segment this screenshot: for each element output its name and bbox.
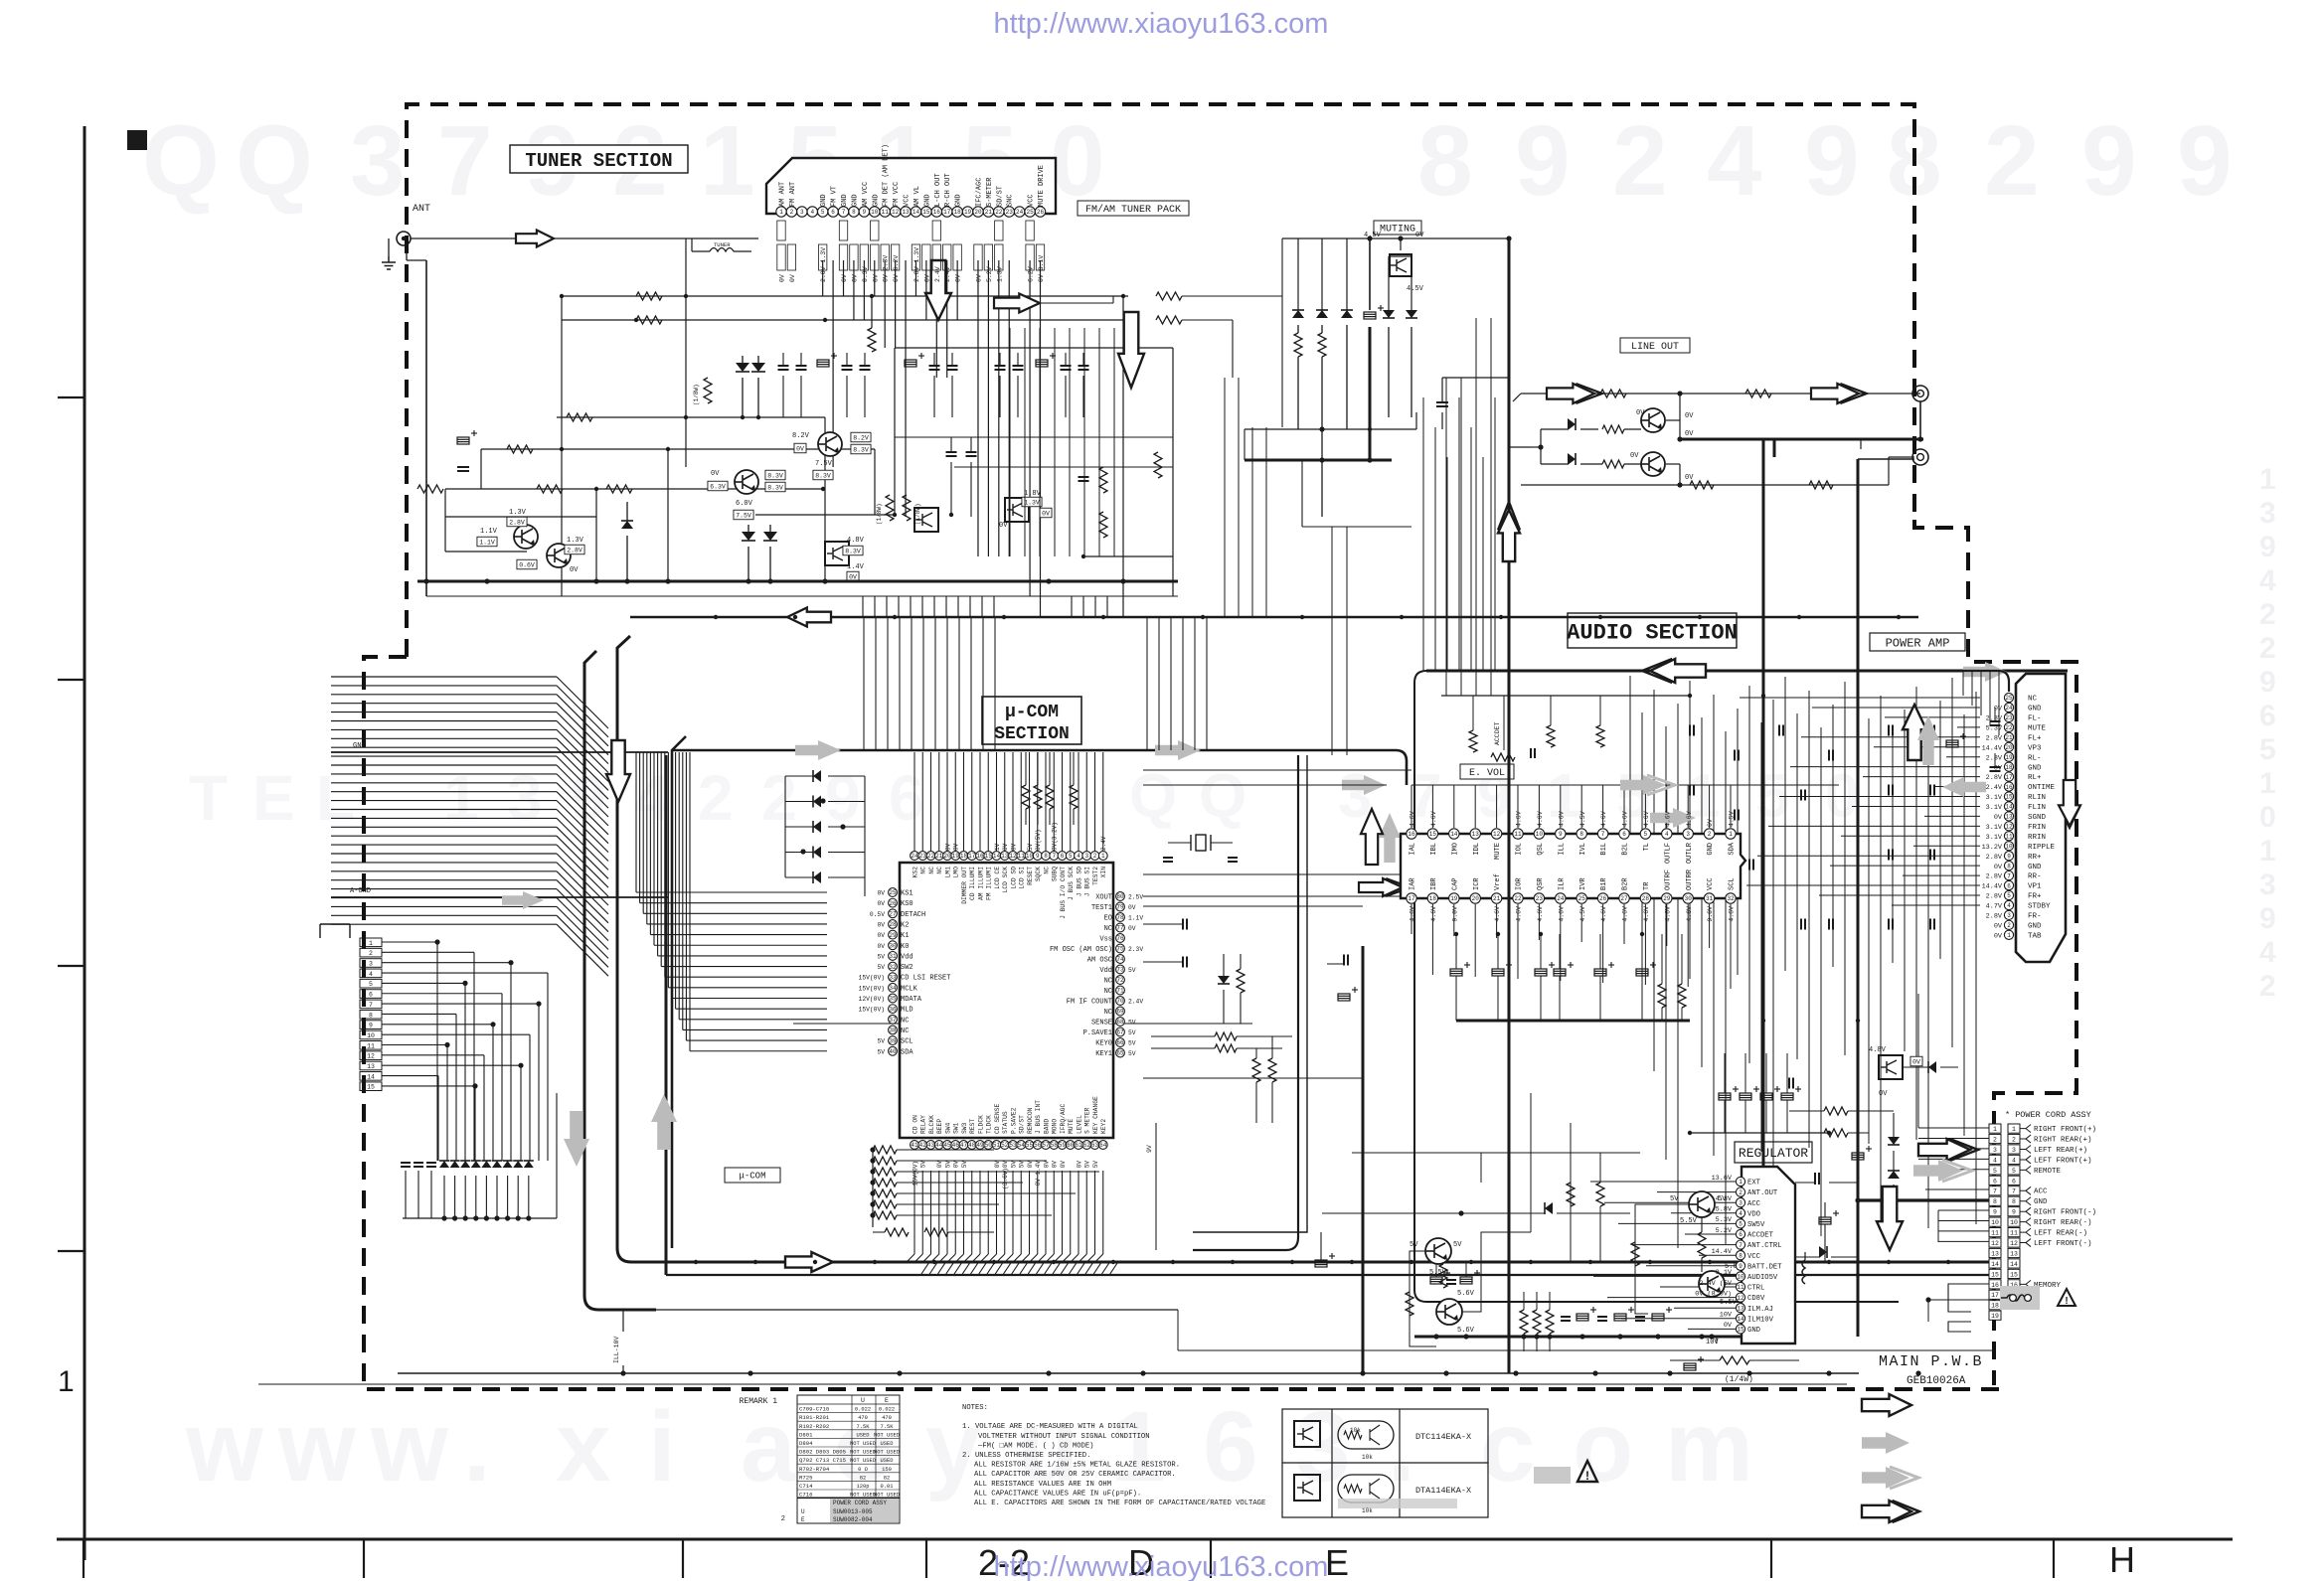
svg-text:2: 2 xyxy=(1984,105,2040,217)
svg-text:5V: 5V xyxy=(961,1161,968,1169)
svg-text:12: 12 xyxy=(1009,853,1017,860)
svg-text:XOUT: XOUT xyxy=(1095,894,1112,902)
wire muting top rail xyxy=(1282,236,1509,310)
svg-text:14: 14 xyxy=(367,1073,375,1080)
svg-text:18: 18 xyxy=(1429,895,1437,902)
transistor Q102 xyxy=(547,544,571,567)
wire u-COM bottom pin drops xyxy=(907,1171,1103,1262)
svg-text:2.8V: 2.8V xyxy=(1986,913,2003,921)
svg-text:46: 46 xyxy=(952,1142,960,1149)
capacitor trio lower audio xyxy=(1690,1053,1829,1133)
gray arrow audio 2 xyxy=(1620,775,1675,795)
svg-text:0.022: 0.022 xyxy=(855,1407,871,1413)
svg-text:1.1V: 1.1V xyxy=(480,528,498,536)
svg-text:0V: 0V xyxy=(1994,864,2003,871)
wire bus left vertical continuation to u-COM xyxy=(636,752,827,1051)
svg-text:BATT.DET: BATT.DET xyxy=(1747,1263,1782,1271)
svg-text:EO: EO xyxy=(1104,915,1112,923)
wire right tuner to muting xyxy=(1239,238,1282,460)
svg-text:27: 27 xyxy=(1620,895,1628,902)
resistor R799 quarter watt xyxy=(1670,1356,1799,1384)
wire thick GND to power cord pin8 xyxy=(1855,1197,1989,1202)
svg-text:FM VCC: FM VCC xyxy=(893,182,901,207)
svg-text:4: 4 xyxy=(2012,1157,2016,1164)
svg-text:U: U xyxy=(801,1508,805,1515)
svg-text:470: 470 xyxy=(858,1415,868,1421)
capacitor C102 xyxy=(457,466,469,468)
svg-text:NC: NC xyxy=(2028,696,2038,704)
svg-text:RR-: RR- xyxy=(2028,873,2042,881)
svg-text:6: 6 xyxy=(2007,882,2011,889)
svg-text:64: 64 xyxy=(1099,1142,1107,1149)
svg-text:FR-: FR- xyxy=(2028,913,2042,921)
gray highlight swatch xyxy=(1534,1467,1571,1484)
svg-text:20: 20 xyxy=(974,209,982,216)
svg-text:Vref: Vref xyxy=(1494,873,1502,890)
resistor R110 vertical pair with labels xyxy=(876,495,921,525)
svg-text:4.6V: 4.6V xyxy=(1537,811,1544,827)
svg-text:5: 5 xyxy=(1739,1221,1743,1228)
svg-text:DIMMER OUT: DIMMER OUT xyxy=(961,867,968,904)
svg-text:LM1: LM1 xyxy=(944,867,951,878)
svg-text:AUDIO SECTION: AUDIO SECTION xyxy=(1567,620,1738,645)
svg-text:10k: 10k xyxy=(1362,1507,1373,1514)
connector power cord assy xyxy=(1989,1110,2096,1320)
svg-text:CD LSI RESET: CD LSI RESET xyxy=(901,975,950,983)
svg-text:2: 2 xyxy=(2007,922,2011,929)
svg-text:75: 75 xyxy=(1116,946,1124,953)
svg-text:2: 2 xyxy=(790,209,794,216)
svg-text:0V: 0V xyxy=(1010,843,1017,851)
svg-text:L: L xyxy=(316,762,355,834)
svg-text:SW2: SW2 xyxy=(901,964,913,972)
svg-text:5.2V: 5.2V xyxy=(1716,1227,1733,1235)
svg-text:44: 44 xyxy=(935,1142,943,1149)
svg-text:SD/ST: SD/ST xyxy=(996,186,1004,207)
arrow down from tuner pins xyxy=(925,260,951,320)
svg-text:CTRL: CTRL xyxy=(1747,1285,1764,1293)
svg-text:(1/8W): (1/8W) xyxy=(876,503,883,525)
svg-text:MUTE: MUTE xyxy=(1068,1119,1075,1134)
svg-text:17: 17 xyxy=(1408,895,1415,902)
svg-text:0V: 0V xyxy=(1630,452,1639,460)
resistor R105 xyxy=(417,485,443,493)
transistor Q104 xyxy=(818,432,842,456)
svg-text:1. VOLTAGE ARE DC-MEASURED WI: 1. VOLTAGE ARE DC-MEASURED WITH A DIGITA… xyxy=(962,1423,1138,1431)
svg-text:GND: GND xyxy=(872,194,880,207)
svg-text:0V: 0V xyxy=(877,943,885,950)
svg-text:2.8V: 2.8V xyxy=(1986,893,2003,901)
wire audio horizontals to power amp pins xyxy=(1740,698,1980,905)
svg-text:REMOCON: REMOCON xyxy=(1027,1107,1034,1134)
svg-text:H: H xyxy=(2109,1539,2135,1580)
svg-text:12: 12 xyxy=(1493,831,1501,838)
svg-text:3.1V: 3.1V xyxy=(1986,834,2003,842)
svg-text:9: 9 xyxy=(1993,1209,1997,1216)
svg-text:9: 9 xyxy=(2177,105,2233,217)
label FM/AM TUNER PACK xyxy=(1078,201,1189,216)
wire long vertical 1371 xyxy=(1362,946,1365,1373)
svg-text:4.6V: 4.6V xyxy=(1600,811,1607,827)
svg-text:NC: NC xyxy=(1104,925,1112,933)
wire line out thick feed vertical xyxy=(1506,236,1511,1373)
svg-text:21: 21 xyxy=(935,853,943,860)
svg-text:ILM10V: ILM10V xyxy=(1747,1316,1774,1324)
svg-text:2.8V: 2.8V xyxy=(509,519,525,526)
voltage labels Q101 xyxy=(477,509,527,547)
svg-text:5V: 5V xyxy=(877,1038,885,1045)
svg-text:EXT: EXT xyxy=(1747,1180,1761,1187)
svg-text:RIGHT REAR(-): RIGHT REAR(-) xyxy=(2034,1219,2092,1227)
svg-text:4.5V: 4.5V xyxy=(1729,811,1736,827)
svg-text:AM ILLUMI: AM ILLUMI xyxy=(977,867,984,900)
svg-text:14: 14 xyxy=(1991,1261,1999,1268)
svg-text:4.3V: 4.3V xyxy=(1716,1195,1733,1203)
svg-text:(1/8W): (1/8W) xyxy=(914,503,921,525)
wire antenna feed xyxy=(389,238,758,596)
svg-text:33: 33 xyxy=(889,974,897,981)
diode D703 pair at power cord xyxy=(1888,1113,1900,1200)
svg-text:2: 2 xyxy=(1993,1136,1997,1143)
svg-text:9: 9 xyxy=(2259,531,2276,563)
svg-text:0V: 0V xyxy=(841,274,848,282)
svg-text:SENSE: SENSE xyxy=(1091,1020,1112,1028)
svg-text:56: 56 xyxy=(1034,1142,1042,1149)
gray arrow audio 3 xyxy=(1650,808,1696,828)
svg-text:6: 6 xyxy=(1061,853,1065,860)
svg-text:QSL: QSL xyxy=(1537,843,1545,856)
svg-text:470: 470 xyxy=(882,1415,892,1421)
svg-text:KEY CHANGE: KEY CHANGE xyxy=(1092,1096,1099,1134)
svg-text:16: 16 xyxy=(2005,784,2013,791)
svg-text:AM OSC: AM OSC xyxy=(1087,957,1112,965)
gray arrow audio 1 xyxy=(1342,775,1386,795)
svg-text:10: 10 xyxy=(1536,831,1544,838)
svg-text:LEFT REAR(-): LEFT REAR(-) xyxy=(2034,1230,2087,1238)
resistor vertical pair below KEY xyxy=(1252,1036,1276,1123)
wire diode array bus xyxy=(403,1093,557,1221)
svg-text:6: 6 xyxy=(369,992,373,999)
svg-text:IOR: IOR xyxy=(1516,877,1524,890)
svg-text:0V 6.2V: 0V 6.2V xyxy=(893,255,900,282)
svg-text:0V: 0V xyxy=(1685,474,1694,482)
svg-text:4: 4 xyxy=(2259,564,2276,597)
svg-text:ANT: ANT xyxy=(413,204,430,215)
svg-text:4: 4 xyxy=(1665,831,1669,838)
svg-text:RLIN: RLIN xyxy=(2028,794,2046,802)
svg-text:2: 2 xyxy=(2259,970,2276,1003)
svg-text:FL+: FL+ xyxy=(2028,734,2042,742)
svg-text:U: U xyxy=(861,1397,865,1404)
svg-text:1: 1 xyxy=(1101,853,1105,860)
resistor R107 xyxy=(606,485,632,493)
svg-text:0V: 0V xyxy=(1724,1322,1733,1330)
svg-text:15V(0V): 15V(0V) xyxy=(912,1161,918,1186)
svg-text:65: 65 xyxy=(1116,1050,1124,1057)
arrow on antenna feed xyxy=(516,231,554,247)
svg-text:9: 9 xyxy=(2259,902,2276,935)
svg-text:5V: 5V xyxy=(877,964,885,971)
electrolytic C110 group xyxy=(817,353,1056,367)
svg-text:9: 9 xyxy=(825,762,861,834)
junction dots on buses xyxy=(694,615,1950,1264)
svg-text:1.3V: 1.3V xyxy=(509,509,527,517)
svg-text:0V: 0V xyxy=(1027,1161,1034,1169)
resistor R201 after arrow xyxy=(1040,292,1272,378)
svg-text:25: 25 xyxy=(889,889,897,896)
svg-text:Vdd: Vdd xyxy=(1099,967,1112,975)
svg-text:QSR: QSR xyxy=(1537,877,1545,890)
svg-text:0V: 0V xyxy=(1879,1090,1888,1098)
arrow left on audio boundary xyxy=(1642,659,1706,683)
svg-text:5: 5 xyxy=(821,209,825,216)
svg-text:1.3V: 1.3V xyxy=(1024,499,1040,506)
svg-text:5V: 5V xyxy=(920,1161,927,1169)
svg-text:28: 28 xyxy=(889,921,897,928)
svg-text:17: 17 xyxy=(1991,1292,1999,1299)
svg-text:K1: K1 xyxy=(901,932,909,940)
svg-text:4.6V: 4.6V xyxy=(1622,906,1629,922)
svg-text:12V(0V): 12V(0V) xyxy=(859,996,885,1003)
wire Q706 bias box xyxy=(1406,1232,1531,1346)
svg-text:29: 29 xyxy=(1663,895,1671,902)
svg-text:25: 25 xyxy=(2005,695,2013,702)
svg-text:5V: 5V xyxy=(1128,1040,1136,1047)
svg-text:.: . xyxy=(1388,1391,1415,1502)
svg-text:12: 12 xyxy=(2010,1240,2018,1247)
svg-text:2.5V: 2.5V xyxy=(1128,894,1143,901)
svg-text:KEY2: KEY2 xyxy=(1100,1119,1107,1134)
svg-text:14: 14 xyxy=(2005,804,2013,811)
voltage labels Q107 xyxy=(999,490,1052,530)
svg-text:10: 10 xyxy=(367,1032,375,1039)
resistor R303 xyxy=(1602,425,1624,433)
svg-text:MAIN P.W.B: MAIN P.W.B xyxy=(1879,1353,1983,1370)
svg-text:6: 6 xyxy=(831,209,835,216)
svg-text:0V: 0V xyxy=(975,274,982,282)
svg-text:8: 8 xyxy=(1993,1198,1997,1205)
svg-text:GND: GND xyxy=(2028,706,2042,713)
wire memory pins 16-18 loop xyxy=(1925,1284,1989,1332)
svg-text:3: 3 xyxy=(1739,1199,1743,1206)
svg-text:23: 23 xyxy=(2005,714,2013,721)
svg-text:1.3V: 1.3V xyxy=(996,266,1003,282)
svg-text:9: 9 xyxy=(1739,1263,1743,1270)
svg-text:ILR: ILR xyxy=(1558,877,1566,890)
gray arrow on u-COM top 2 xyxy=(1155,740,1201,760)
svg-text:10: 10 xyxy=(2005,843,2013,850)
svg-text:TEST1: TEST1 xyxy=(1091,904,1112,912)
wire 10V label xyxy=(1706,1337,1719,1346)
svg-text:REMOTE: REMOTE xyxy=(2034,1168,2062,1176)
wire bus B to audio thick horizontal xyxy=(631,1261,1989,1264)
svg-text:5: 5 xyxy=(2012,1168,2016,1175)
svg-text:R725: R725 xyxy=(799,1474,812,1481)
svg-text:22: 22 xyxy=(927,853,935,860)
svg-text:11: 11 xyxy=(1018,853,1026,860)
svg-text:30: 30 xyxy=(1685,895,1693,902)
resistor between Q704 Q705 xyxy=(1698,1217,1706,1272)
label MUTING xyxy=(1374,221,1421,235)
svg-text:25: 25 xyxy=(1578,895,1586,902)
svg-text:ALL E. CAPACITORS ARE SHOWN IN: ALL E. CAPACITORS ARE SHOWN IN THE FORM … xyxy=(974,1500,1265,1507)
svg-text:19: 19 xyxy=(1991,1313,1999,1320)
svg-text:5V: 5V xyxy=(877,1048,885,1055)
capacitor bank tuner mid xyxy=(778,353,1089,417)
svg-text:NC: NC xyxy=(1104,978,1112,986)
svg-text:CD ON: CD ON xyxy=(912,1115,918,1134)
svg-text:0V: 0V xyxy=(1707,819,1714,827)
svg-text:66: 66 xyxy=(1116,1039,1124,1046)
svg-text:1.8V: 1.8V xyxy=(1024,490,1042,498)
svg-text:(1/4W): (1/4W) xyxy=(1725,1375,1753,1384)
svg-text:Q: Q xyxy=(236,105,313,217)
svg-text:1: 1 xyxy=(2007,932,2011,939)
svg-text:RESET: RESET xyxy=(1027,867,1034,885)
svg-text:15V(0V): 15V(0V) xyxy=(859,1007,885,1014)
diode D301 xyxy=(1541,418,1598,430)
svg-text:2.4V: 2.4V xyxy=(944,266,951,282)
capacitor C701 at regulator top xyxy=(1795,1173,1858,1185)
resistor R101 xyxy=(636,292,662,300)
coil L701 xyxy=(1802,1252,1805,1284)
svg-text:7: 7 xyxy=(369,1002,373,1009)
svg-text:0V: 0V xyxy=(1076,1161,1082,1169)
svg-text:1.1V: 1.1V xyxy=(479,539,495,546)
svg-text:2: 2 xyxy=(2259,598,2276,631)
svg-text:GND: GND xyxy=(820,194,828,207)
svg-text:NC: NC xyxy=(901,1028,909,1035)
svg-text:18: 18 xyxy=(960,853,968,860)
svg-text:19: 19 xyxy=(1450,895,1458,902)
svg-text:11: 11 xyxy=(2010,1230,2018,1237)
diode D705 on long wire xyxy=(1322,1202,1630,1216)
resistor muting pair xyxy=(1294,325,1411,517)
wire bus tuner-out verticals going down xyxy=(426,596,1178,617)
svg-text:7: 7 xyxy=(1739,1242,1743,1249)
svg-text:11: 11 xyxy=(367,1042,375,1049)
svg-text:LCD SCK: LCD SCK xyxy=(1002,867,1009,893)
svg-text:LEFT REAR(+): LEFT REAR(+) xyxy=(2034,1147,2087,1155)
svg-text:a: a xyxy=(741,1391,797,1502)
svg-text:9: 9 xyxy=(1036,853,1040,860)
wire muting lower rails xyxy=(1245,412,1416,527)
svg-text:TAB: TAB xyxy=(2028,932,2042,940)
svg-text:J BUS INT: J BUS INT xyxy=(1035,1100,1042,1134)
svg-text:1: 1 xyxy=(700,105,755,217)
svg-text:2.4V: 2.4V xyxy=(934,266,941,282)
svg-text:FLIN: FLIN xyxy=(2028,804,2046,812)
svg-text:4: 4 xyxy=(810,209,814,216)
svg-text:21: 21 xyxy=(2005,734,2013,741)
svg-text:20: 20 xyxy=(943,853,951,860)
svg-text:4.6V: 4.6V xyxy=(1664,811,1671,827)
svg-text:IVR: IVR xyxy=(1579,877,1587,890)
svg-text:3: 3 xyxy=(350,105,406,217)
svg-text:0.022: 0.022 xyxy=(879,1407,895,1413)
svg-text:15V(0V): 15V(0V) xyxy=(859,985,885,992)
svg-text:4.6V: 4.6V xyxy=(1643,906,1650,922)
svg-text:1: 1 xyxy=(1729,831,1733,838)
node A-GND bus label xyxy=(331,887,668,897)
arrow up line feed xyxy=(1498,502,1520,561)
label TUNER SECTION xyxy=(510,145,688,173)
svg-text:0V: 0V xyxy=(877,921,885,928)
svg-text:9: 9 xyxy=(2012,1209,2016,1216)
svg-text:ANT.CTRL: ANT.CTRL xyxy=(1747,1242,1782,1250)
svg-text:3: 3 xyxy=(800,209,804,216)
arrow left on bus D xyxy=(787,608,831,627)
svg-text:77: 77 xyxy=(1116,925,1124,932)
wire bundle tuner extra verticals xyxy=(895,328,1173,556)
svg-text:16: 16 xyxy=(1991,1282,1999,1289)
svg-text:15: 15 xyxy=(2005,794,2013,801)
svg-text:Q: Q xyxy=(1199,762,1246,831)
svg-text:0V: 0V xyxy=(877,900,885,907)
svg-text:KEY1: KEY1 xyxy=(1095,1050,1112,1058)
svg-text:14.4V: 14.4V xyxy=(1982,883,2003,891)
svg-text:4: 4 xyxy=(2007,902,2011,909)
svg-text:31: 31 xyxy=(889,953,897,960)
svg-text:4.8V: 4.8V xyxy=(1869,1046,1887,1054)
connector power amp xyxy=(1982,674,2066,962)
svg-text:30: 30 xyxy=(889,942,897,949)
svg-text:13: 13 xyxy=(1001,853,1009,860)
wire u-COM section top boundary xyxy=(672,736,1407,1248)
wire line-out feed redrawn over E.VOL xyxy=(1508,834,1511,1373)
wire audio verticals field xyxy=(1630,676,1976,1248)
svg-text:MCLK: MCLK xyxy=(901,985,918,993)
wire regulator pin feeds xyxy=(1590,1182,1736,1329)
svg-text:14: 14 xyxy=(913,209,920,216)
svg-text:0: 0 xyxy=(1050,105,1105,217)
svg-text:13: 13 xyxy=(1991,1250,1999,1257)
svg-text:!: ! xyxy=(2065,1296,2068,1307)
svg-text:0V: 0V xyxy=(779,274,786,282)
svg-text:0V: 0V xyxy=(1636,409,1645,417)
svg-text:USED: USED xyxy=(881,1458,894,1464)
svg-text:VCC: VCC xyxy=(1028,194,1036,207)
legend box transistor types xyxy=(1282,1409,1488,1517)
svg-text:8.3V: 8.3V xyxy=(845,548,861,554)
wire bus left 29 lines xyxy=(331,677,608,976)
svg-text:!: ! xyxy=(1585,1469,1589,1483)
transistor DTA114 symbol boxed xyxy=(1294,1475,1320,1501)
svg-text:DETACH: DETACH xyxy=(901,911,925,919)
arrow up hollow at e-vol left xyxy=(1361,809,1383,865)
resistor R306 xyxy=(1809,481,1833,489)
svg-text:SD/ST: SD/ST xyxy=(1019,1115,1026,1134)
wire e-vol bottom drops xyxy=(1411,904,1731,989)
svg-text:67: 67 xyxy=(1116,1029,1124,1036)
svg-text:0V: 0V xyxy=(877,890,885,897)
svg-text:55: 55 xyxy=(1026,1142,1034,1149)
svg-text:15: 15 xyxy=(367,1084,375,1091)
resistor pair under e-vol xyxy=(1658,934,1686,1021)
svg-text:2. UNLESS OTHERWISE SPECIFIED.: 2. UNLESS OTHERWISE SPECIFIED. xyxy=(962,1452,1090,1460)
gray arrow double right to power cord xyxy=(1913,1160,1972,1182)
svg-text:11: 11 xyxy=(1514,831,1522,838)
decorative watermark row bottom xyxy=(185,1391,1753,1502)
label LINE OUT xyxy=(1620,338,1690,353)
decorative watermark row middle xyxy=(189,762,1859,834)
svg-text:17: 17 xyxy=(968,853,976,860)
wire bundle mid right verticals xyxy=(1225,318,1491,755)
svg-text:17: 17 xyxy=(943,209,951,216)
svg-text:5V: 5V xyxy=(1010,1161,1017,1169)
svg-text:VP1: VP1 xyxy=(2028,883,2042,891)
wire bus tuner to u-COM verticals xyxy=(864,617,1207,750)
